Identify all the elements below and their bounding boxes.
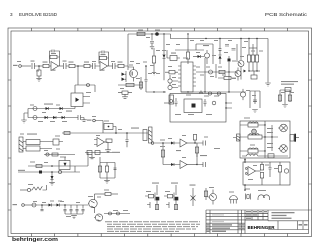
resistor R31 vertical [205, 188, 207, 200]
junction bus x188 [187, 33, 188, 34]
wire dropper x241 [240, 39, 242, 61]
capacitor C11 dropper [219, 39, 222, 55]
capacitor C27 electrolytic [169, 95, 174, 104]
diode D14 [42, 204, 49, 206]
label text gray [112, 152, 120, 153]
junction dots on amp box [244, 161, 246, 163]
diode D3 [45, 116, 48, 119]
op-amp U1 [51, 62, 59, 71]
node terminal T4 [13, 204, 18, 205]
wire verticals x280-294 [280, 90, 290, 104]
wire verticals x250-260 [250, 91, 260, 108]
wire U1 output [59, 65, 64, 67]
resistor R37 vertical [278, 166, 281, 173]
ground [282, 105, 288, 108]
capacitor C16 [114, 168, 117, 170]
mosfet cell Q8 [156, 185, 158, 195]
notes text block [105, 222, 200, 232]
transformer T1 enclosure [170, 94, 226, 123]
wire input to C1 [21, 65, 31, 67]
crossover box [240, 121, 290, 158]
fuse F5 [208, 92, 211, 95]
wire low chain [24, 204, 32, 206]
wire lower run y213 [104, 213, 130, 215]
resistor R4 feedback [50, 55, 57, 58]
diode D15 [57, 204, 60, 207]
relay K1 box [104, 124, 113, 130]
speaker SPK1 HF [280, 124, 288, 132]
junction [41, 204, 43, 206]
resistor R25 [95, 151, 100, 155]
svg-text:behringer.com: behringer.com [12, 237, 58, 243]
wire rail y71 [249, 70, 260, 72]
varistor RV1 [46, 153, 49, 156]
wire vertical x213 [212, 44, 214, 64]
diode D11 [171, 163, 174, 166]
wire feedback right leg [57, 57, 60, 66]
capacitor C30 [225, 45, 229, 47]
node B junction [77, 65, 79, 67]
top/bottom zone ticks [31, 28, 287, 31]
capacitor C19 [41, 205, 44, 211]
junction y133 [126, 132, 128, 134]
resistor R22 [106, 139, 112, 142]
resistor R9 [118, 64, 124, 67]
thermistor RT1 [155, 32, 159, 36]
diode D6 [193, 56, 198, 58]
diode D10 [171, 142, 174, 145]
resistor R2 shunt [38, 66, 40, 70]
ground [104, 178, 110, 183]
capacitor C17 [197, 141, 206, 146]
fuse F6 [217, 92, 220, 95]
junction [228, 71, 229, 72]
fuse F1 [137, 32, 145, 35]
resistor R39 [219, 70, 225, 73]
label text gray two lines [281, 81, 298, 82]
capacitor C9 dropper [150, 34, 154, 46]
resistor R40 [126, 83, 134, 86]
ground [265, 83, 271, 86]
wire vertical x205 [204, 58, 206, 92]
svg-text:PCB Schematic: PCB Schematic [265, 12, 308, 18]
ground [122, 94, 128, 98]
inductor L4 row [242, 154, 288, 156]
fuse F4 [32, 203, 36, 207]
transistor Q11 TO-92 [230, 196, 238, 200]
capacitor C1 [32, 63, 39, 69]
lamp LP1 [252, 129, 257, 134]
small parts row x86-112 y152 [85, 152, 112, 154]
diode D16 black [122, 73, 125, 76]
junction [162, 142, 164, 144]
capacitor C26 [145, 66, 148, 92]
inductor L3 [248, 149, 258, 153]
jumper W1 arcs [258, 195, 270, 200]
op-amp U7 [248, 167, 256, 176]
resistor R16b vertical [252, 44, 254, 55]
ground [252, 110, 258, 113]
wire to diode [154, 142, 171, 144]
capacitor C25 [209, 70, 213, 74]
filter block FL1 [26, 140, 40, 145]
resistor R8 feedback [100, 56, 107, 59]
wire vertical x141 [140, 77, 142, 90]
regulator VR1 box [170, 56, 177, 61]
op-amp U4 [97, 138, 105, 147]
wire stub into T1 [164, 102, 169, 104]
mosfet cell Q9 [175, 185, 177, 195]
ground [21, 120, 27, 123]
resistor R14 [224, 77, 231, 80]
resistor R7 [84, 64, 90, 67]
connector CN1 mains inlet [19, 137, 23, 152]
transistor Q14 [168, 85, 172, 89]
ground [81, 118, 87, 122]
transistor Q10 [210, 194, 217, 201]
wire link boxes [244, 158, 246, 190]
wire feedback left leg [49, 57, 52, 64]
label texts gray [31, 61, 35, 62]
resistor R29 vertical [161, 150, 164, 157]
varistor RV5 [87, 84, 90, 87]
wire vertical x216 [215, 64, 217, 78]
wire vertical x237 [236, 44, 238, 62]
capacitor C28 [175, 98, 178, 107]
junction [51, 165, 53, 167]
mains rail upper with bridge diodes [28, 108, 75, 110]
op-amp U6 [180, 161, 187, 169]
capacitor C14 [78, 115, 84, 120]
polyfuse F2 [33, 107, 37, 111]
wire top supply bus [128, 34, 268, 39]
capacitor C10 electrolytic [205, 53, 210, 58]
diode D5 [163, 55, 166, 59]
wire standby row lower [18, 171, 80, 173]
wire U2 output [108, 65, 113, 67]
inductor L5 [200, 91, 203, 94]
wire stub x196 [195, 44, 197, 50]
varistor RV3 [109, 212, 112, 215]
wire long run y133 [62, 132, 148, 134]
resistor R38 [169, 71, 175, 74]
wire lower run [44, 154, 75, 156]
diode D7 [219, 55, 222, 59]
junction on bus [151, 33, 152, 34]
junction [51, 171, 53, 173]
diode D9 black [244, 70, 247, 73]
resistor R34 [268, 154, 274, 158]
optocoupler U3 [71, 93, 83, 107]
transformer T1 core [184, 99, 202, 113]
junction bus x249 [248, 38, 249, 39]
wire risers [75, 152, 88, 172]
wire rail y72 right of IC [196, 71, 238, 73]
pilot lamp LP2 [284, 169, 288, 173]
wire left bracket [24, 109, 28, 121]
wire node B down to opto [75, 66, 95, 93]
capacitor C13 bars [253, 100, 257, 102]
mosfet Q12 block [59, 161, 70, 170]
diode D4 [53, 116, 56, 119]
wire rail y92b [146, 91, 166, 93]
diode D8 black [228, 59, 231, 62]
varistor RV2 [58, 170, 61, 173]
resistor R15 vertical [248, 39, 250, 56]
label speckles gray [17, 37, 294, 217]
speaker SPK2 LF [280, 145, 288, 153]
diode D13 [51, 172, 53, 176]
resistor R28 vertical [193, 135, 196, 141]
thermal switch S2 [191, 188, 196, 206]
capacitor C31 [232, 49, 236, 51]
capacitor C29 [204, 99, 207, 107]
wire join outputs [196, 143, 198, 165]
wire rail y92 [181, 91, 246, 93]
resistor R30 vertical [195, 147, 198, 153]
capacitor C7 parallel loop [99, 51, 109, 59]
varistor RV4 [117, 212, 120, 215]
resistor R35 vertical [260, 165, 263, 171]
wire vertical x265 [264, 121, 266, 158]
junction bus x220 [219, 38, 220, 39]
right divider lines [268, 221, 309, 230]
node IN1 input terminal [19, 65, 22, 68]
junction on bus [163, 33, 164, 34]
svg-text:3: 3 [10, 12, 13, 17]
resistor R20 [52, 153, 58, 156]
label text gray [267, 128, 273, 129]
junction bus x241 [240, 38, 241, 39]
resistor R26 vertical [98, 166, 101, 172]
ground [152, 72, 156, 75]
junction dot [244, 189, 246, 191]
IC U8 driver [181, 62, 193, 92]
junction [64, 204, 66, 206]
transistor Q3 [235, 71, 241, 77]
ground [36, 76, 41, 81]
wire feedback left leg [98, 58, 100, 64]
wire standby row upper [28, 165, 88, 167]
label text gray [27, 134, 37, 135]
capacitor C24 [269, 162, 272, 177]
capacitor C18 [197, 162, 206, 167]
resistor R33 [105, 193, 111, 196]
label text gray [131, 128, 139, 129]
ground [71, 216, 77, 219]
resistor R23 small [143, 130, 147, 141]
resistor R18 vertical [278, 95, 281, 101]
capacitor C6 [93, 63, 101, 69]
connector CN3 input [237, 134, 241, 141]
potentiometer VR2 [20, 189, 27, 191]
wire node C vertical [127, 34, 129, 66]
mains rail lower with diodes [28, 117, 78, 119]
wire secondary taps [226, 103, 232, 108]
transistor Q7 [95, 214, 102, 221]
node A junction [38, 65, 40, 67]
middle grid [245, 210, 268, 221]
resistor R11 vertical [153, 48, 155, 56]
wire rail y85 [118, 84, 142, 86]
junction bus x206 [205, 38, 206, 39]
ground [150, 47, 154, 50]
diode D17 black [122, 78, 125, 81]
ground [105, 150, 111, 153]
capacitor C15 dropper [126, 133, 129, 147]
wire dropper x188 [187, 34, 189, 50]
resistor R19 vertical [288, 95, 291, 101]
right info text [272, 212, 295, 219]
left/right zone ticks [8, 54, 11, 210]
node terminal T3 [151, 142, 154, 145]
wire rail y50 [175, 49, 204, 51]
switch SW1 box [53, 139, 59, 145]
resistor R27 vertical [105, 166, 108, 172]
title block outline [206, 210, 309, 234]
transistor Q4 [238, 61, 244, 67]
amp module box [243, 162, 290, 185]
label text gray [176, 150, 181, 151]
crystal X1 [246, 194, 251, 200]
border frame inner [11, 31, 309, 234]
resistor R16 vertical [256, 39, 258, 56]
wire vertical x272 [271, 125, 273, 151]
capacitor C8 [113, 63, 119, 69]
connector CN2 [149, 127, 153, 143]
snubber loop [100, 157, 115, 178]
diode D4b [62, 116, 65, 119]
wire bus corner down [267, 39, 269, 83]
wire x163 down [162, 143, 164, 165]
connector CN4 output [290, 135, 294, 142]
wire collector to resistor [95, 193, 106, 195]
resistor R3 [39, 65, 43, 67]
capacitor C12 [285, 88, 291, 92]
resistor R41 [122, 91, 128, 94]
diode D2 [60, 107, 63, 110]
wire vertical x229 [228, 62, 230, 92]
resistor R21 [64, 132, 70, 135]
resistor R32 [36, 165, 42, 168]
wire to node C [124, 66, 128, 70]
label texts gray [138, 30, 143, 31]
polyfuse F3 [33, 116, 37, 120]
resistor R17 [253, 71, 255, 75]
transistor Q13 [168, 79, 172, 83]
capacitor bank C20-C23 [64, 205, 67, 214]
inductor L1 [248, 123, 258, 127]
wire link y44 [196, 43, 213, 45]
svg-text:EUROLIVE B215D: EUROLIVE B215D [19, 12, 58, 17]
junction [194, 142, 195, 143]
varistor RV6 [212, 101, 216, 105]
transistor Q6 [89, 199, 97, 207]
wire to relay [95, 121, 103, 134]
inductor L2 [248, 135, 262, 139]
mosfet Q15 [130, 70, 138, 78]
resistor R12 vertical [186, 52, 189, 59]
junction x116 [115, 132, 117, 134]
op-amp U2 [100, 62, 108, 71]
resistor R24 [87, 151, 92, 155]
capacitor C2 parallel loop [50, 50, 60, 58]
node terminal T2 [93, 119, 96, 122]
label text gray [44, 104, 53, 105]
ground [89, 155, 95, 159]
ground [49, 182, 55, 185]
resistor R36 vertical [260, 173, 263, 179]
revision table [206, 210, 268, 234]
diode D1 [46, 107, 49, 110]
capacitor C5 [64, 63, 70, 69]
wire dropper D5 [163, 34, 165, 54]
diode D12 black [39, 171, 42, 174]
resistor R6 [69, 64, 75, 67]
wire link y48 [249, 47, 257, 49]
transistor Q5b [240, 92, 245, 97]
op-amp U5 [180, 139, 187, 147]
